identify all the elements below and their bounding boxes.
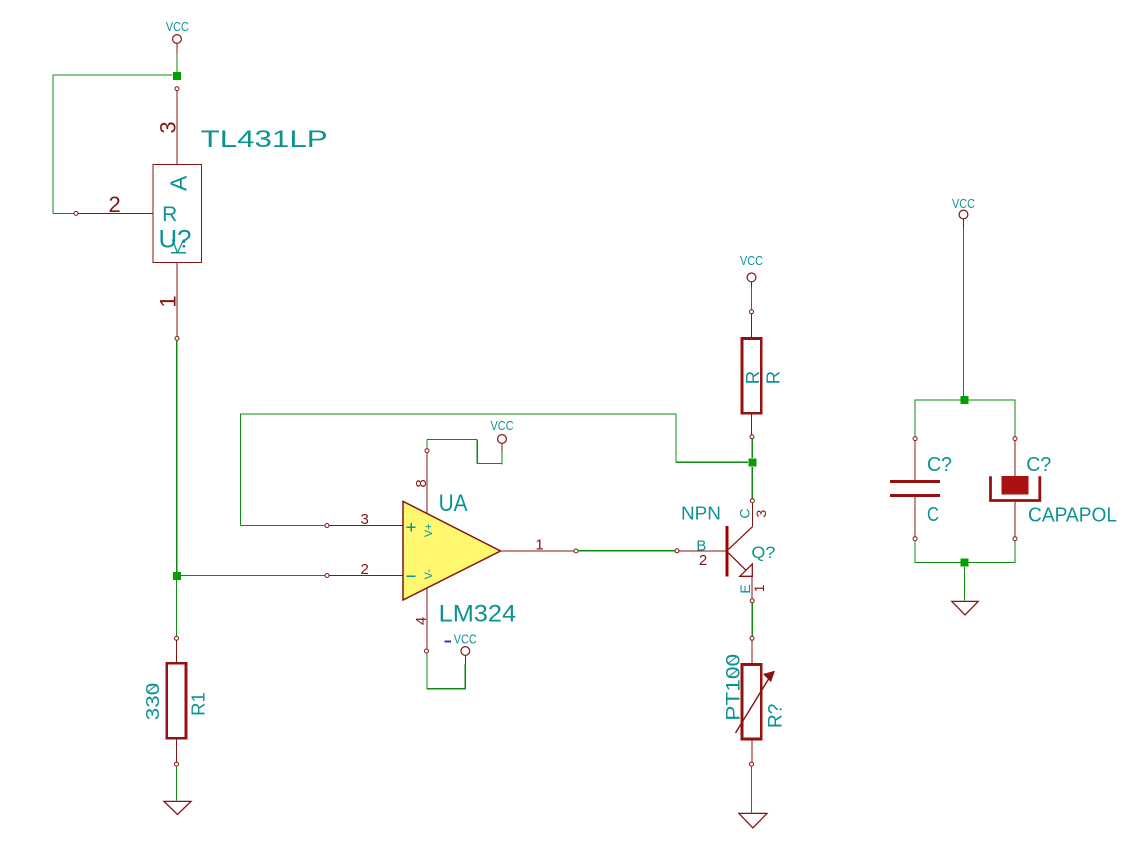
svg-text:PT100: PT100 — [724, 654, 745, 721]
svg-text:LM324: LM324 — [439, 601, 516, 628]
wire bottom rail (right section) — [915, 541, 1015, 563]
node junction at (176.5,575.5) — [173, 572, 181, 580]
capacitor C? body — [890, 481, 940, 495]
svg-text:C?: C? — [927, 454, 952, 476]
capacitor C? upper pin — [913, 437, 917, 481]
svg-text:2: 2 — [699, 552, 707, 569]
svg-text:1: 1 — [751, 584, 767, 592]
svg-text:R: R — [742, 371, 763, 384]
thermistor R? lower pin — [750, 739, 754, 766]
op-amp UA body — [403, 501, 501, 600]
wire junction left — [53, 74, 173, 76]
svg-text:CAPAPOL: CAPAPOL — [1028, 505, 1117, 527]
wire VCC to junction — [176, 53, 178, 72]
power VCC (transistor branch) — [740, 254, 763, 287]
svg-text:VCC: VCC — [740, 254, 763, 268]
wire VCC down to junction (right) — [963, 228, 965, 398]
wire resistor to VCC — [751, 287, 753, 310]
svg-text:UA: UA — [439, 490, 468, 517]
ground (right section) — [952, 601, 978, 615]
transistor Q? pin 1 emitter — [737, 576, 767, 603]
TL431 U? body — [153, 164, 202, 262]
svg-text:V+: V+ — [423, 523, 435, 537]
pin name A (anode, drawn flipped) — [171, 240, 186, 253]
ground (R1) — [164, 801, 191, 814]
node junction at (752,462) — [748, 458, 756, 466]
power VCC (op-amp top) — [491, 419, 514, 452]
svg-text:VCC: VCC — [491, 419, 514, 433]
thermistor R? PT100 body — [724, 654, 787, 739]
wire junction to op-amp pin 2 — [181, 575, 325, 577]
power VCC (right section) — [952, 197, 975, 228]
svg-text:NPN: NPN — [681, 504, 721, 524]
pin 3 of U? — [156, 87, 181, 165]
svg-text:U?: U? — [159, 226, 192, 254]
op-amp UA pin 8 — [413, 449, 430, 514]
wire pin8 to VCC — [427, 439, 502, 464]
pin 1 of U? — [156, 262, 181, 340]
pin 2 of U? — [74, 192, 153, 217]
svg-text:8: 8 — [413, 479, 430, 487]
wire to ground (PT100) — [751, 766, 753, 812]
resistor R upper pin — [750, 310, 754, 339]
wire corner to op-amp pin 3 — [241, 414, 325, 526]
power VCC (top left) — [166, 20, 189, 53]
svg-text:VCC: VCC — [454, 632, 477, 646]
op-amp UA pin 2 — [325, 561, 403, 578]
transistor Q? body — [727, 526, 753, 577]
power -VCC — [445, 632, 477, 664]
svg-text:R: R — [162, 203, 177, 226]
wire junction down to R1 — [176, 580, 178, 636]
svg-text:3: 3 — [753, 509, 769, 517]
wire top rail (right section) — [915, 399, 1015, 436]
svg-text:V-: V- — [423, 569, 435, 580]
svg-text:3: 3 — [156, 121, 181, 133]
svg-text:R: R — [762, 371, 783, 384]
svg-text:R?: R? — [766, 704, 787, 728]
wire pin4 to -VCC — [426, 653, 465, 689]
svg-text:2: 2 — [361, 561, 369, 578]
wire junction to ground (right) — [964, 567, 966, 600]
svg-text:3: 3 — [361, 511, 369, 528]
op-amp UA pin 1 (output) — [501, 537, 579, 554]
wire pin1 down to junction — [176, 341, 178, 572]
wire to pin 2 — [53, 212, 74, 214]
svg-text:C: C — [927, 504, 939, 526]
svg-text:R1: R1 — [188, 692, 209, 716]
resistor R lower pin — [750, 413, 754, 439]
node junction at (177,75) — [173, 72, 181, 80]
wire emitter down — [751, 603, 753, 636]
wire junction up to resistor — [751, 439, 753, 458]
resistor R1 upper pin — [175, 636, 179, 663]
svg-text:C: C — [736, 509, 752, 519]
svg-text:C?: C? — [1026, 454, 1051, 476]
ground (PT100) — [739, 813, 767, 828]
svg-text:4: 4 — [413, 617, 430, 625]
svg-text:VCC: VCC — [166, 20, 189, 34]
capacitor CAPAPOL upper pin — [1013, 437, 1017, 476]
wire to ground (R1) — [176, 766, 178, 800]
svg-text:A: A — [166, 175, 192, 191]
resistor R1 body — [142, 663, 208, 738]
thermistor R? upper pin — [750, 636, 754, 664]
transistor Q? pin 2 base — [675, 537, 726, 569]
transistor Q? pin 3 collector — [736, 499, 769, 527]
svg-text:Q?: Q? — [751, 543, 775, 562]
wire collector to junction — [751, 467, 753, 499]
svg-text:TL431LP: TL431LP — [201, 126, 328, 153]
wire left vertical — [52, 74, 54, 213]
capacitor CAPAPOL lower pin — [1013, 502, 1017, 541]
resistor R body — [742, 339, 784, 414]
node junction at (964,400) — [961, 396, 969, 404]
wire output to base — [578, 550, 675, 552]
wire long feedback top — [240, 414, 748, 462]
op-amp UA pin 4 — [413, 588, 430, 654]
op-amp UA pin 3 — [325, 511, 403, 528]
node junction at (964,562) — [961, 559, 969, 567]
capacitor CAPAPOL body — [991, 476, 1040, 501]
svg-text:VCC: VCC — [952, 197, 975, 211]
svg-text:1: 1 — [535, 537, 543, 554]
svg-text:1: 1 — [156, 295, 181, 307]
resistor R1 lower pin — [175, 738, 179, 766]
svg-text:2: 2 — [108, 192, 120, 217]
capacitor C? lower pin — [913, 497, 917, 541]
